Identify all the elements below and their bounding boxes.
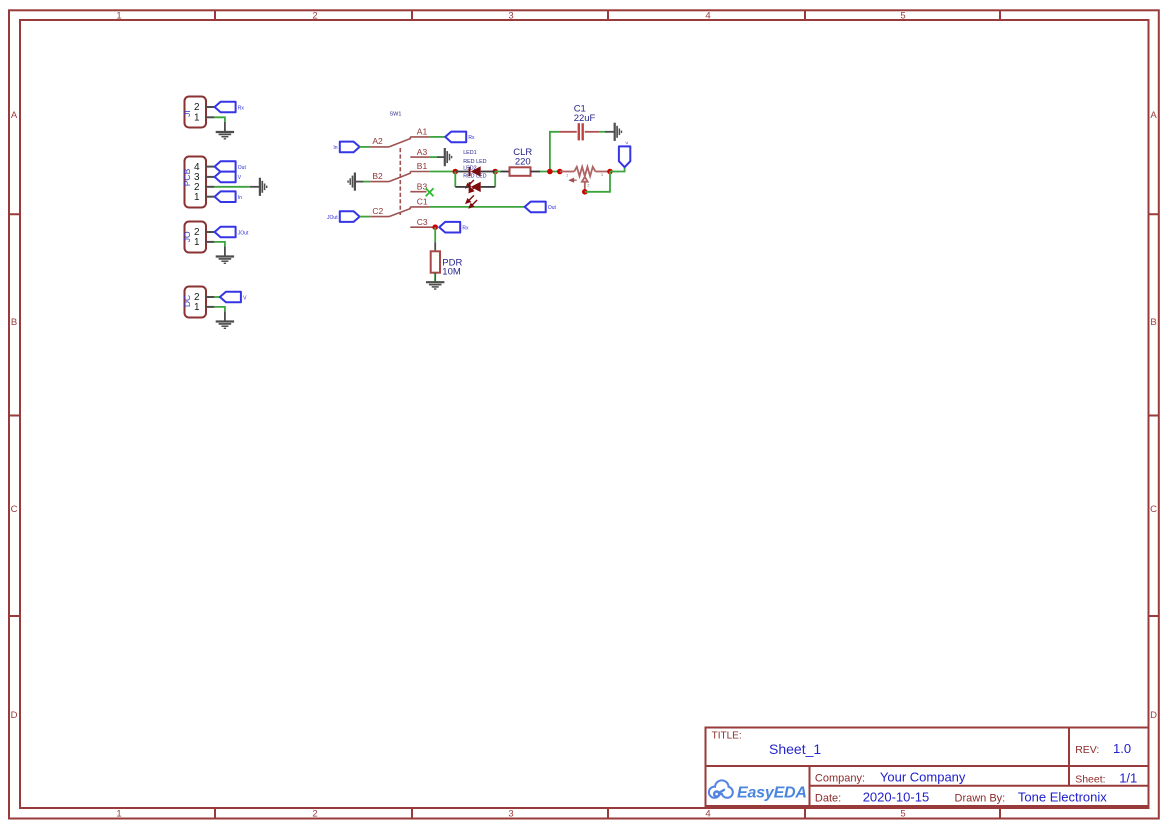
svg-text:C1: C1 <box>417 197 428 207</box>
switch throw A1 <box>410 136 429 138</box>
pin PCB.4 <box>206 166 214 168</box>
ground (DC.1) <box>216 322 234 329</box>
svg-text:LED2: LED2 <box>463 165 477 171</box>
svg-text:2: 2 <box>312 11 317 22</box>
junction LED right <box>492 169 498 175</box>
resistor PDR <box>431 251 440 272</box>
ground (JO.1) <box>216 257 234 264</box>
net flag JOut (JO.2) <box>215 227 249 238</box>
svg-text:3: 3 <box>508 11 513 22</box>
svg-text:In: In <box>238 195 242 201</box>
pin PCB.3 <box>206 176 214 178</box>
svg-text:B: B <box>1150 317 1156 328</box>
connector JI <box>182 97 215 128</box>
svg-text:DC: DC <box>182 295 192 307</box>
pin JO.2 <box>206 231 214 233</box>
switch throw B3 <box>410 191 426 193</box>
svg-text:PCB: PCB <box>182 168 192 186</box>
pot terminal numbers <box>566 172 604 188</box>
net flag In (PCB.1) <box>215 191 243 202</box>
svg-text:2020-10-15: 2020-10-15 <box>863 790 930 805</box>
svg-text:5: 5 <box>900 809 905 820</box>
svg-text:A: A <box>11 110 18 121</box>
switch pole B2 <box>370 172 410 182</box>
svg-text:JOut: JOut <box>238 230 249 236</box>
svg-text:C3: C3 <box>417 217 428 227</box>
svg-text:B1: B1 <box>417 161 428 171</box>
wire LED to CLR <box>495 171 509 173</box>
net flag Out (PCB.4) <box>215 161 247 172</box>
net flag > (pot) <box>619 142 630 168</box>
svg-text:1: 1 <box>194 237 200 248</box>
svg-text:B3: B3 <box>417 181 428 191</box>
svg-text:V: V <box>243 295 247 301</box>
frame column numbers top <box>116 11 905 22</box>
svg-text:10M: 10M <box>442 267 461 278</box>
svg-text:RED LED: RED LED <box>463 159 486 165</box>
svg-text:Tone Electronix: Tone Electronix <box>1018 790 1107 805</box>
wire PCB.2 to side ground <box>214 186 259 188</box>
LED1 emission arrows <box>466 180 477 192</box>
wire JOut flag to C2 <box>360 216 371 218</box>
svg-text:Rx: Rx <box>468 135 475 141</box>
svg-text:REV:: REV: <box>1075 744 1099 756</box>
svg-text:A3: A3 <box>417 147 428 157</box>
svg-text:A2: A2 <box>372 136 383 146</box>
connector JO <box>182 222 215 253</box>
wire JO.1 to ground <box>214 242 225 257</box>
net flag Rx (JI.2) <box>215 102 245 113</box>
switch throw C3 <box>410 226 433 228</box>
svg-text:Sheet_1: Sheet_1 <box>769 741 821 757</box>
wire A1 to Rx flag <box>430 136 445 138</box>
svg-text:JI: JI <box>182 110 192 117</box>
svg-text:In: In <box>333 145 337 151</box>
svg-text:B2: B2 <box>372 171 383 181</box>
svg-text:1: 1 <box>194 302 200 313</box>
LED labels <box>463 150 486 180</box>
net flag V (PCB.3) <box>215 172 242 183</box>
pin JI.1 <box>206 116 214 118</box>
svg-text:C2: C2 <box>372 206 383 216</box>
svg-text:Out: Out <box>548 205 557 211</box>
net flag Rx (C3) <box>439 222 469 233</box>
wire wiper loop <box>585 172 610 192</box>
svg-text:4: 4 <box>705 11 710 22</box>
svg-text:Out: Out <box>238 165 247 171</box>
svg-text:22uF: 22uF <box>574 113 596 124</box>
svg-text:>: > <box>623 142 629 145</box>
junction pot wiper <box>582 189 588 195</box>
svg-text:2: 2 <box>587 183 590 188</box>
wire DC.1 to ground <box>214 307 225 322</box>
switch pole C2 <box>370 207 410 217</box>
switch pole A2 <box>370 137 410 147</box>
EasyEDA logo <box>710 781 807 801</box>
pin JO.1 <box>206 241 214 243</box>
LED1 leads <box>455 171 495 173</box>
svg-text:LED1: LED1 <box>463 150 477 156</box>
svg-text:3: 3 <box>601 172 604 177</box>
potentiometer R <box>560 167 610 191</box>
svg-text:Your Company: Your Company <box>880 769 966 784</box>
svg-text:D: D <box>1150 710 1157 721</box>
svg-text:RED LED: RED LED <box>463 174 486 180</box>
junction C3 <box>432 224 438 230</box>
resistor CLR 220 <box>510 167 531 176</box>
ground sideways left (B2) <box>348 173 355 191</box>
ground sideways (A3) <box>445 148 452 166</box>
pin DC.2 <box>206 296 214 298</box>
wire B2 ground stem <box>355 181 370 183</box>
connector PCB <box>182 157 215 208</box>
svg-text:4: 4 <box>705 809 710 820</box>
net flag Rx (A1) <box>445 132 475 143</box>
svg-text:A: A <box>1150 110 1157 121</box>
LED2 (RED LED) <box>470 182 481 192</box>
ground (JI.1) <box>216 132 234 139</box>
wire DC.2 to flag <box>214 296 220 298</box>
svg-text:220: 220 <box>515 156 531 167</box>
pin DC.1 <box>206 306 214 308</box>
capacitor C1 22uF <box>560 123 600 140</box>
wire C3 down to PDR <box>434 227 436 251</box>
wire PDR to ground <box>434 273 436 282</box>
svg-text:5: 5 <box>900 11 905 22</box>
ground sideways (PCB.2) <box>260 178 267 196</box>
pot adjust arrow <box>570 179 577 182</box>
junction node2 <box>557 169 563 175</box>
svg-text:C: C <box>1150 504 1157 515</box>
wire CLR to node <box>531 171 560 173</box>
switch throw A3 <box>410 156 429 158</box>
wire pot right to flag <box>610 167 625 172</box>
svg-text:1/1: 1/1 <box>1119 771 1137 786</box>
junction LED left <box>453 169 459 175</box>
frame row letters right <box>1150 110 1157 721</box>
ground sideways (C1) <box>615 123 622 141</box>
pin JI.2 <box>206 106 214 108</box>
wire C1 to side ground <box>600 131 614 133</box>
svg-text:1: 1 <box>194 192 200 203</box>
switch throw B1 <box>410 171 429 173</box>
wire C1 to Out flag <box>430 206 525 208</box>
wire A3 to side ground <box>430 156 445 158</box>
net flag In (SW1.A2) <box>333 142 359 153</box>
LED bypass path <box>455 172 495 187</box>
net flag JOut (C2) <box>327 211 360 222</box>
svg-text:3: 3 <box>508 809 513 820</box>
svg-text:1: 1 <box>116 11 121 22</box>
svg-text:1: 1 <box>194 113 200 124</box>
svg-text:B: B <box>11 317 17 328</box>
ground (PDR) <box>426 282 444 289</box>
frame column numbers bottom <box>116 809 905 820</box>
svg-text:SW1: SW1 <box>390 112 402 118</box>
svg-text:Rx: Rx <box>238 105 245 111</box>
svg-text:V: V <box>238 175 242 181</box>
switch throw C1 <box>410 206 429 208</box>
junction node1 <box>547 169 553 175</box>
wire B1 to LED node <box>430 171 456 173</box>
svg-text:Rx: Rx <box>462 226 469 232</box>
wire In flag to A2 <box>360 146 371 148</box>
frame row letters left <box>11 110 18 721</box>
svg-text:Sheet:: Sheet: <box>1075 774 1105 786</box>
no-connect X (B3) <box>426 188 434 196</box>
svg-text:A1: A1 <box>417 127 428 137</box>
svg-text:2: 2 <box>312 809 317 820</box>
svg-text:Company:: Company: <box>815 772 865 784</box>
svg-text:C: C <box>11 504 18 515</box>
svg-text:1.0: 1.0 <box>1113 741 1131 756</box>
svg-text:TITLE:: TITLE: <box>712 731 742 742</box>
title block <box>706 728 1149 807</box>
wire JI.1 to ground <box>214 117 225 132</box>
wire node up to C1 <box>550 132 560 172</box>
pin PCB.1 <box>206 196 214 198</box>
net flag Out (C1) <box>525 202 557 213</box>
LED1 (RED LED) <box>470 166 481 176</box>
svg-text:1: 1 <box>116 809 121 820</box>
connector DC <box>182 287 215 318</box>
svg-text:1: 1 <box>566 173 569 178</box>
net flag V (DC.2) <box>220 292 247 303</box>
svg-text:JOut: JOut <box>327 215 338 221</box>
junction pot right <box>607 169 613 175</box>
svg-text:Date:: Date: <box>815 792 841 804</box>
pin PCB.2 <box>206 186 214 188</box>
LED2 emission arrows <box>466 195 477 207</box>
switch link dashed <box>399 148 401 215</box>
svg-text:D: D <box>11 710 18 721</box>
svg-text:JO: JO <box>182 231 192 242</box>
svg-text:Drawn By:: Drawn By: <box>955 792 1006 804</box>
svg-text:EasyEDA: EasyEDA <box>737 785 807 802</box>
